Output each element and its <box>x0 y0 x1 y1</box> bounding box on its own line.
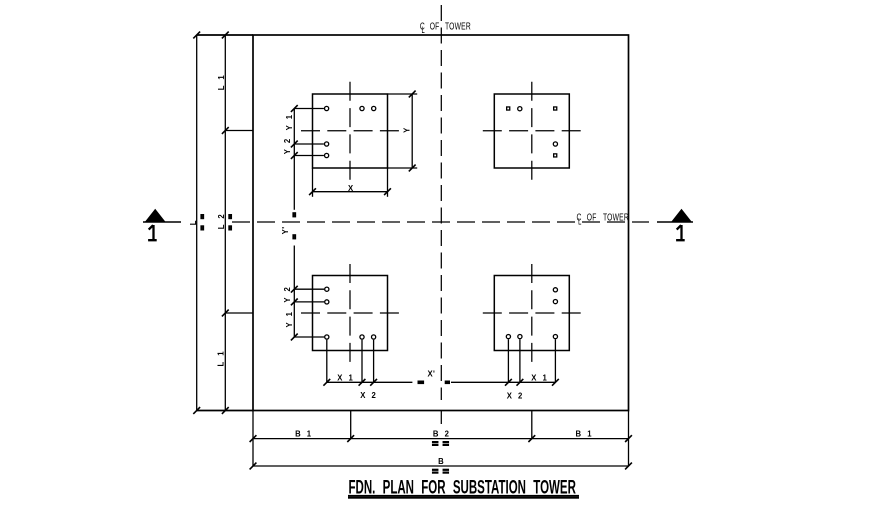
svg-text:Y: Y <box>402 126 411 133</box>
svg-text:X 2: X 2 <box>360 391 378 400</box>
svg-text:L 2: L 2 <box>217 212 226 229</box>
svg-text:TOWER: TOWER <box>445 20 471 32</box>
svg-text:L: L <box>189 219 198 226</box>
svg-text:OF: OF <box>430 20 440 32</box>
svg-text:TOWER: TOWER <box>603 211 629 223</box>
svg-text:B 1: B 1 <box>295 429 313 438</box>
svg-text:B: B <box>438 457 446 466</box>
svg-text:B 2: B 2 <box>433 429 451 438</box>
svg-text:Y 2: Y 2 <box>283 285 292 302</box>
svg-text:L: L <box>422 25 425 36</box>
svg-text:X 1: X 1 <box>531 373 549 382</box>
svg-text:X 2: X 2 <box>507 391 525 400</box>
svg-text:Y 1: Y 1 <box>284 310 293 327</box>
svg-text:L 1: L 1 <box>216 350 225 367</box>
svg-text:L 1: L 1 <box>217 73 226 90</box>
svg-text:L: L <box>578 216 581 227</box>
svg-text:OF: OF <box>587 211 597 223</box>
svg-text:Y': Y' <box>281 226 290 234</box>
svg-text:B 1: B 1 <box>576 429 594 438</box>
svg-text:X 1: X 1 <box>337 373 355 382</box>
svg-text:Y 2: Y 2 <box>283 137 292 154</box>
svg-text:Y 1: Y 1 <box>284 113 293 130</box>
svg-text:X: X <box>348 184 355 193</box>
svg-text:X': X' <box>427 369 435 378</box>
